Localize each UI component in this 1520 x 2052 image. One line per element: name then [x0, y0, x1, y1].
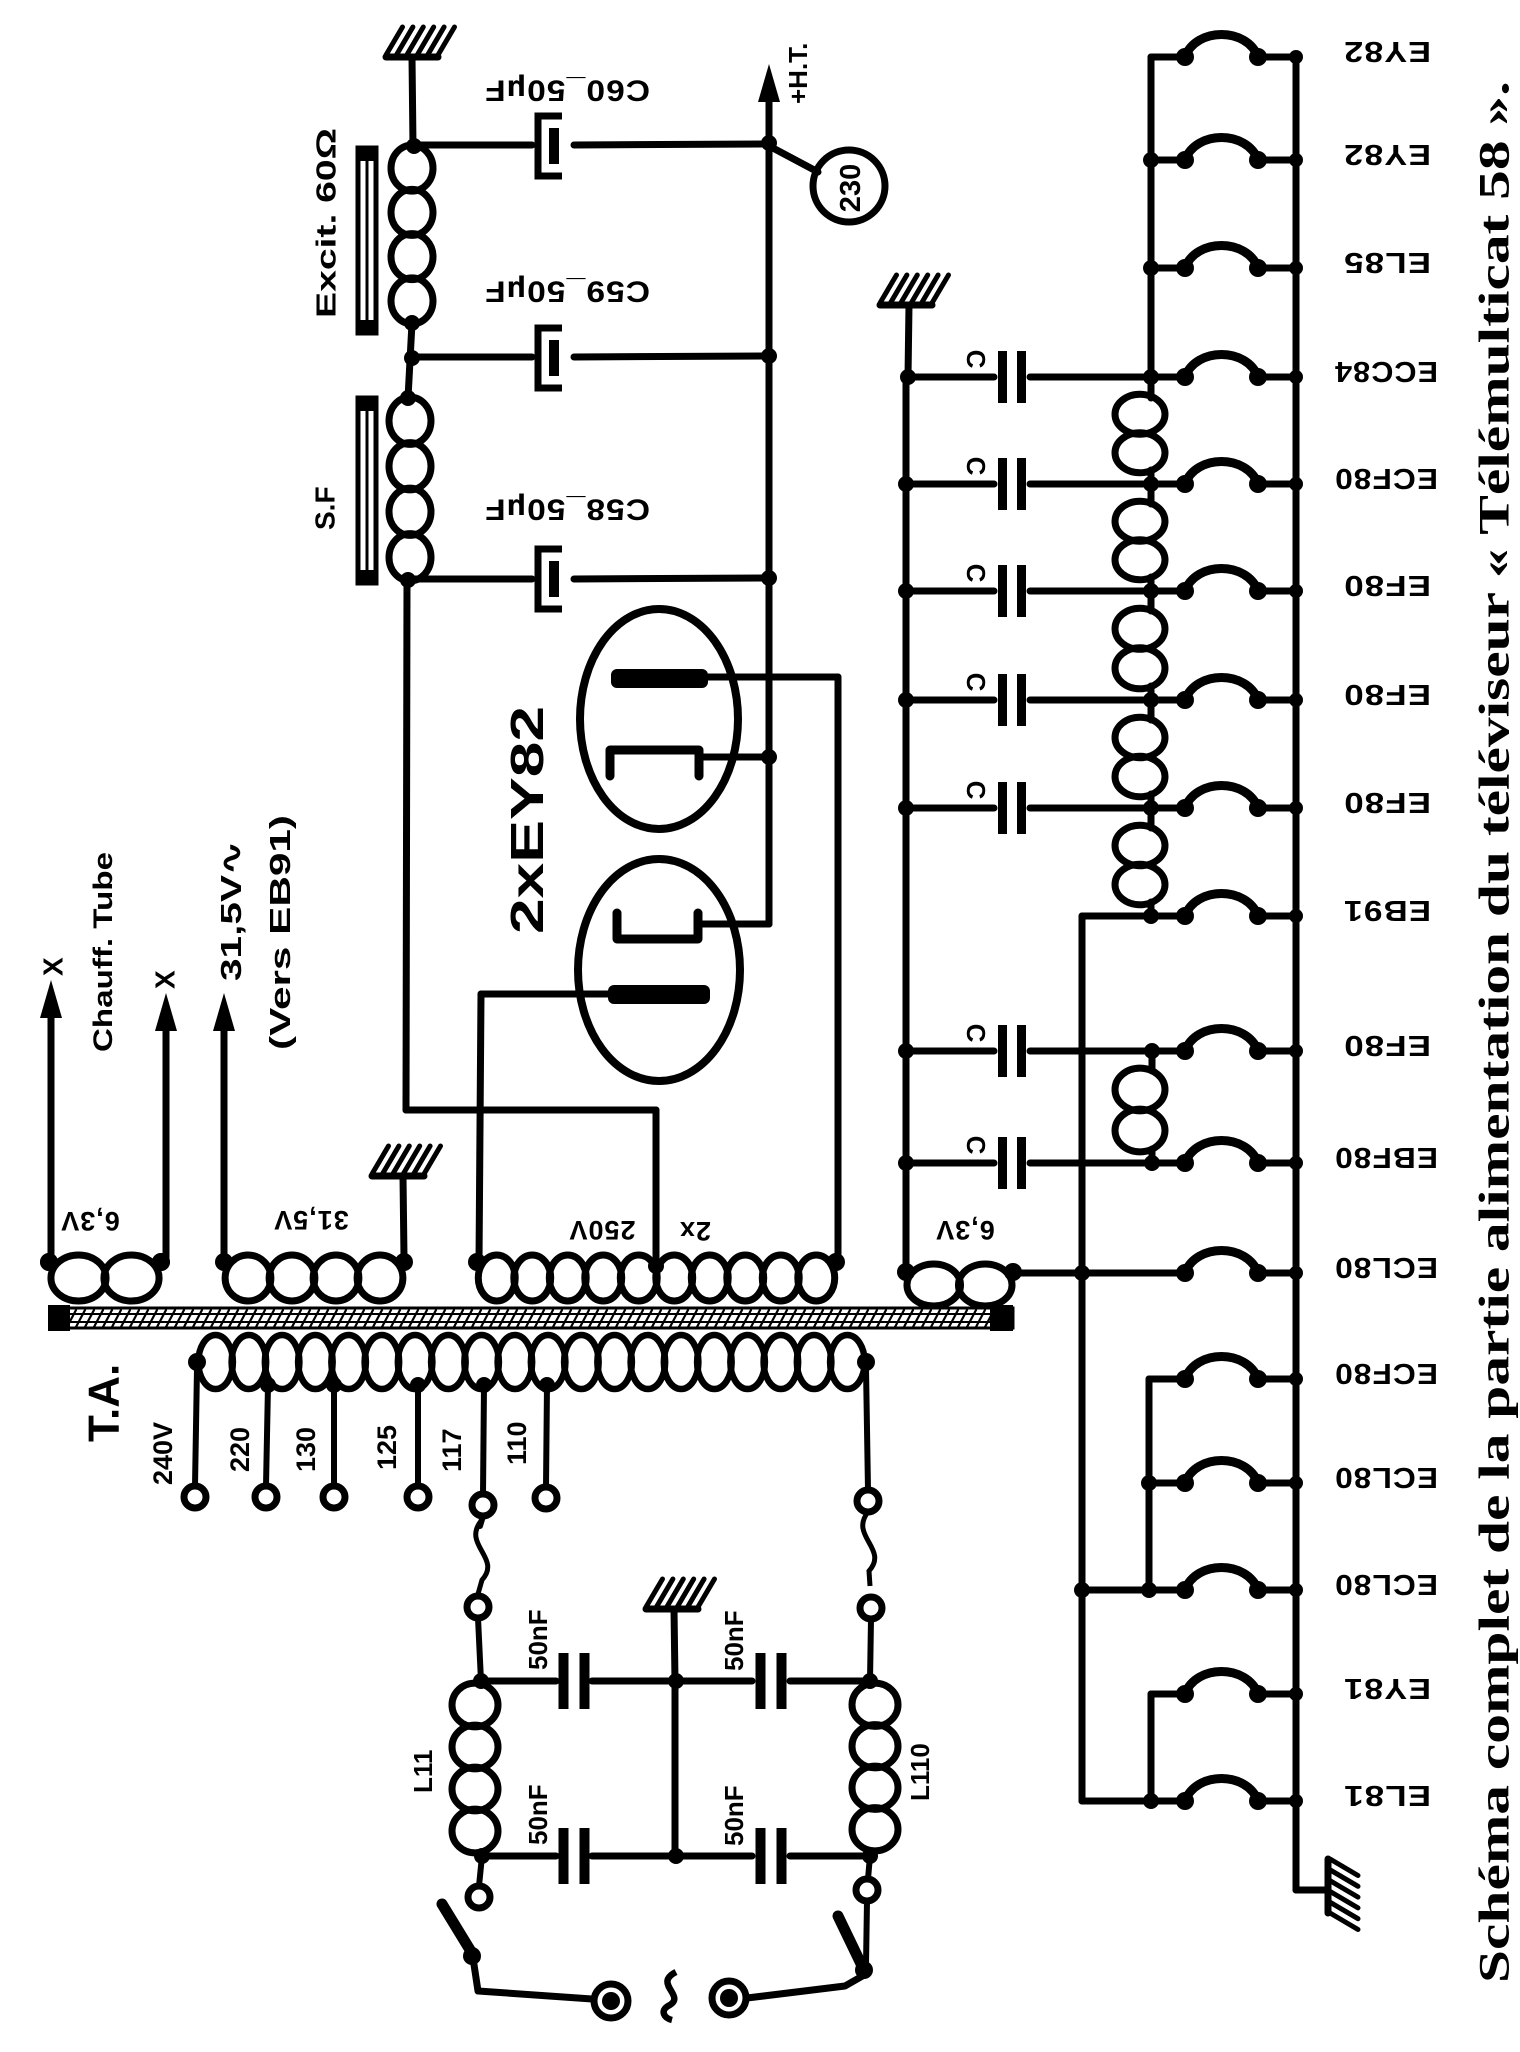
svg-text:50nF: 50nF [719, 1610, 749, 1671]
mains plug left [594, 1984, 628, 2018]
label tube EL81 (row 17) [1343, 1779, 1431, 1811]
heater EY81 (row 16) [1176, 1672, 1303, 1704]
label 6,3V right [935, 1215, 995, 1245]
svg-text:X: X [150, 970, 181, 989]
svg-text:C: C [961, 457, 991, 476]
label tube EF80 (row 6) [1343, 569, 1431, 601]
svg-text:EF80: EF80 [1343, 1029, 1431, 1061]
capacitor C (heater decoupling, y=377) [906, 351, 1185, 403]
heater EF80 (row 6) [1176, 569, 1303, 601]
wire filter top rail [473, 1673, 878, 1689]
label L110 [905, 1743, 935, 1801]
svg-text:31,5V∿: 31,5V∿ [216, 841, 248, 981]
wire heater right bus [1296, 57, 1326, 1890]
tube V1 plate [611, 669, 708, 688]
capacitor C60 [538, 116, 562, 176]
label +H.T. [783, 43, 813, 104]
label tube ECF80 (row 13) [1334, 1357, 1438, 1389]
transformer T.A. core [48, 1305, 1013, 1331]
wire switch to plug left [473, 1958, 592, 1999]
wire heater cap bus [898, 369, 916, 1272]
label 50nF bottom-right [719, 1785, 749, 1846]
capacitor 50nF bottom-left [559, 1828, 590, 1884]
svg-text:50nF: 50nF [523, 1784, 553, 1845]
heater EF80 (row 7) [1176, 678, 1303, 710]
label (Vers EB91) [265, 815, 297, 1050]
wire V1 cathode to +H.T. rail [702, 749, 777, 765]
label tube EL85 (row 3) [1343, 246, 1431, 278]
label C58_50uF [484, 493, 650, 526]
svg-text:S.F: S.F [310, 486, 341, 530]
wire V1 plate to HV winding right end [708, 677, 838, 1262]
switch blade left [442, 1904, 481, 1965]
label tube EF80 (row 10) [1343, 1029, 1431, 1061]
svg-text:(Vers EB91): (Vers EB91) [265, 815, 297, 1050]
wire C58 row [408, 578, 769, 579]
svg-text:EF80: EF80 [1343, 786, 1431, 818]
svg-text:240V: 240V [148, 1422, 178, 1485]
svg-text:31,5V: 31,5V [273, 1205, 349, 1235]
label tube ECL80 (row 14) [1334, 1461, 1438, 1493]
caption [1472, 81, 1519, 1983]
inductor Excit. 60 ohm winding [391, 138, 433, 331]
svg-text:+H.T.: +H.T. [783, 43, 813, 104]
wire+arrow 31,5V to EB91 [213, 993, 235, 1258]
heater EY82 (row 2) [1176, 138, 1303, 170]
heater EL85 (row 3) [1176, 246, 1303, 278]
inductor L110 [852, 1683, 898, 1851]
RF choke heater bus ECC84-ECF80 [1115, 377, 1165, 492]
tube V2 plate [608, 985, 710, 1004]
wire row3 left [1151, 265, 1185, 272]
heater ECL80 (row 12) [1176, 1251, 1303, 1283]
svg-text:117: 117 [437, 1428, 467, 1472]
svg-text:C58_50µF: C58_50µF [484, 493, 650, 526]
+H.T. arrow [758, 64, 780, 145]
wire row15 left [1082, 1587, 1185, 1594]
svg-text:C: C [961, 1024, 991, 1043]
svg-text:2x: 2x [679, 1216, 711, 1246]
svg-text:220: 220 [225, 1427, 255, 1472]
svg-text:EF80: EF80 [1343, 678, 1431, 710]
label 220 [225, 1427, 255, 1472]
label tube EF80 (row 7) [1343, 678, 1431, 710]
heater ECF80 (row 5) [1176, 462, 1303, 494]
inductor S.F winding [389, 397, 431, 588]
svg-text:C: C [961, 350, 991, 369]
label tube EY81 (row 16) [1343, 1672, 1431, 1704]
wire C60 row [414, 144, 769, 145]
label tube EBF80 (row 11) [1334, 1141, 1438, 1173]
svg-text:50nF: 50nF [719, 1785, 749, 1846]
wire heater left bus (rows1-4) [1143, 57, 1159, 398]
label Excit. 60 ohm [311, 128, 342, 318]
svg-text:125: 125 [372, 1425, 402, 1470]
label C (y=591) [961, 564, 991, 583]
tap 125 [407, 1377, 429, 1508]
wire row1 left [1151, 54, 1185, 61]
wire V2 plate to HV winding left end [479, 994, 608, 1262]
label X left [38, 957, 69, 976]
wire+arrow X (6,3V right end) [152, 993, 177, 1271]
wire fuse lead primary right to L110 [857, 1368, 882, 1681]
switch blade right [838, 1916, 873, 1979]
capacitor C (heater decoupling, y=1163) [906, 1137, 1185, 1189]
svg-text:EBF80: EBF80 [1334, 1141, 1438, 1173]
label C (y=700) [961, 673, 991, 692]
label tube EF80 (row 8) [1343, 786, 1431, 818]
svg-text:6,3V: 6,3V [935, 1215, 995, 1245]
svg-text:ECF80: ECF80 [1334, 1357, 1438, 1389]
capacitor C (heater decoupling, y=700) [906, 674, 1185, 726]
terminal circle 230 [771, 147, 885, 222]
svg-text:L11: L11 [408, 1750, 438, 1793]
tap 110 [535, 1377, 557, 1509]
wire row2 left [1151, 157, 1185, 164]
tube V1 EY82 envelope [580, 609, 738, 829]
capacitor 50nF top-right [756, 1653, 787, 1709]
wire L11 bottom to switch [468, 1856, 490, 1908]
heater EY82 (row 1) [1176, 35, 1303, 67]
svg-text:230: 230 [835, 164, 867, 212]
tap 220 [255, 1377, 277, 1508]
ground (top of Excit. field coil) [386, 27, 455, 146]
tap 117 [472, 1377, 494, 1516]
wire mid bus rows13-15 [1141, 1379, 1185, 1598]
label T.A. [80, 1364, 129, 1442]
svg-text:2xEY82: 2xEY82 [501, 706, 553, 934]
capacitor C (heater decoupling, y=591) [906, 565, 1185, 617]
label tube ECL80 (row 12) [1334, 1251, 1438, 1283]
capacitor 50nF bottom-right [756, 1828, 787, 1884]
label C (y=808) [961, 781, 991, 800]
heater EF80 (row 8) [1176, 786, 1303, 818]
wire S.F bottom to center tap [406, 580, 656, 1262]
tube V2 cathode [617, 913, 698, 939]
label C59_50uF [484, 275, 650, 308]
svg-text:L110: L110 [905, 1743, 935, 1801]
svg-text:Chauff. Tube: Chauff. Tube [88, 852, 118, 1052]
wire C59 row [412, 356, 769, 357]
svg-text:Schéma complet de la partie al: Schéma complet de la partie alimentation… [1472, 81, 1519, 1983]
svg-text:C: C [961, 564, 991, 583]
field coil Excit. 60 ohm core bar [356, 146, 377, 335]
label C (y=484) [961, 457, 991, 476]
wire filter mid vertical [672, 1681, 679, 1856]
heater EF80 (row 10) [1176, 1029, 1303, 1061]
label tube ECL80 (row 15) [1334, 1568, 1438, 1600]
svg-text:C59_50µF: C59_50µF [484, 275, 650, 308]
wire mid bus rows16-17 [1143, 1694, 1185, 1809]
tube V1 cathode [610, 750, 699, 776]
capacitor C59 [538, 328, 562, 388]
label tube EY82 (row 1) [1343, 35, 1431, 67]
svg-text:ECL80: ECL80 [1334, 1251, 1438, 1283]
label C (y=377) [961, 350, 991, 369]
svg-text:EL85: EL85 [1343, 246, 1431, 278]
mains plug right [712, 1981, 746, 2015]
wire node Excit bottom to S.F top [400, 323, 420, 406]
svg-text:C: C [961, 781, 991, 800]
capacitor 50nF top-left [559, 1653, 590, 1709]
wire plug right to switch [747, 1974, 866, 1998]
svg-text:Excit. 60Ω: Excit. 60Ω [311, 128, 342, 318]
svg-text:T.A.: T.A. [80, 1364, 129, 1442]
wire V2 cathode to +H.T. rail corner [700, 921, 769, 928]
tap 130 [323, 1377, 345, 1508]
ground (heater chain bottom) [1328, 1859, 1358, 1930]
tube V2 EY82 envelope [578, 859, 740, 1081]
label 110 [502, 1421, 532, 1465]
wire fuse lead 117 to L11 [467, 1516, 489, 1681]
svg-text:130: 130 [291, 1427, 321, 1472]
RF choke heater bus ECF80-EF80 [1115, 484, 1165, 599]
svg-text:ECC84: ECC84 [1334, 355, 1438, 387]
svg-text:ECF80: ECF80 [1334, 462, 1438, 494]
svg-text:110: 110 [502, 1421, 532, 1465]
label 250V [568, 1215, 635, 1245]
svg-text:EY82: EY82 [1343, 138, 1431, 170]
label C60_50uF [484, 74, 650, 107]
label S.F [310, 486, 341, 530]
wire+arrow X (6,3V left end) [40, 980, 62, 1271]
label tube EB91 (row 9) [1343, 894, 1431, 926]
label 31,5V~ [216, 841, 248, 981]
wire switch to L110 bottom [856, 1856, 878, 1965]
svg-text:C: C [961, 1136, 991, 1155]
label 240V [148, 1422, 178, 1485]
capacitor C (heater decoupling, y=1051) [906, 1025, 1185, 1077]
svg-text:C: C [961, 673, 991, 692]
ground (heater decoupling bus) [880, 275, 949, 377]
RF choke heater bus EF80-EBF80 [1115, 1043, 1165, 1171]
heater EB91 (row 9) [1176, 894, 1303, 926]
capacitor C (heater decoupling, y=484) [906, 458, 1185, 510]
label C (y=1051) [961, 1024, 991, 1043]
secondary winding 6,3V left [40, 1253, 170, 1301]
label tube ECC84 (row 4) [1334, 355, 1438, 387]
primary winding [188, 1335, 875, 1389]
label 117 [437, 1428, 467, 1472]
svg-text:6,3V: 6,3V [60, 1206, 120, 1236]
label 50nF top-left [523, 1609, 553, 1670]
label L11 [408, 1750, 438, 1793]
svg-text:EF80: EF80 [1343, 569, 1431, 601]
label ~ (mains) [664, 1972, 676, 2020]
inductor L11 [452, 1683, 498, 1853]
label X right [150, 970, 181, 989]
tap 240V [184, 1368, 206, 1508]
wire filter bottom rail [474, 1848, 878, 1864]
label tube EY82 (row 2) [1343, 138, 1431, 170]
heater ECL80 (row 15) [1176, 1568, 1303, 1600]
wire row9 EB91 to down bus [1074, 916, 1185, 1801]
svg-text:EL81: EL81 [1343, 1779, 1431, 1811]
label 2x [679, 1216, 711, 1246]
heater EBF80 (row 11) [1176, 1141, 1303, 1173]
svg-text:EB91: EB91 [1343, 894, 1431, 926]
svg-text:X: X [38, 957, 69, 976]
heater EL81 (row 17) [1176, 1779, 1303, 1811]
svg-text:C60_50µF: C60_50µF [484, 74, 650, 107]
RF choke heater bus EF80-EB91 [1115, 808, 1165, 924]
heater ECL80 (row 14) [1176, 1461, 1303, 1493]
svg-text:EY81: EY81 [1343, 1672, 1431, 1704]
svg-text:250V: 250V [568, 1215, 635, 1245]
label 50nF bottom-left [523, 1784, 553, 1845]
wire row17 left [1082, 1798, 1185, 1805]
RF choke heater bus EF80-EF80 [1115, 591, 1165, 708]
label 125 [372, 1425, 402, 1470]
svg-text:EY82: EY82 [1343, 35, 1431, 67]
heater ECC84 (row 4) [1176, 355, 1303, 387]
label C (y=1163) [961, 1136, 991, 1155]
wire +H.T. rail [761, 135, 777, 924]
svg-text:ECL80: ECL80 [1334, 1568, 1438, 1600]
ground (filter mid) [646, 1579, 715, 1681]
secondary winding 6,3V right (heater chain) [897, 1263, 1022, 1306]
capacitor C (heater decoupling, y=808) [906, 782, 1185, 834]
svg-text:50nF: 50nF [523, 1609, 553, 1670]
wire row12 (6,3V to heater) [1013, 1270, 1185, 1277]
heater ECF80 (row 13) [1176, 1357, 1303, 1389]
label 6,3V left [60, 1206, 120, 1236]
label 130 [291, 1427, 321, 1472]
label 50nF top-right [719, 1610, 749, 1671]
label 31,5V [273, 1205, 349, 1235]
RF choke heater bus EF80-EF80 [1115, 700, 1165, 816]
secondary winding 31,5V [215, 1253, 413, 1301]
label Chauff. Tube [88, 852, 118, 1052]
ground (31,5V right end) [372, 1146, 441, 1258]
svg-text:ECL80: ECL80 [1334, 1461, 1438, 1493]
capacitor C58 [538, 549, 562, 609]
label tube ECF80 (row 5) [1334, 462, 1438, 494]
inductor S.F core bar [356, 396, 377, 585]
label 2xEY82 [501, 706, 553, 934]
secondary winding 2x250V [468, 1253, 845, 1301]
